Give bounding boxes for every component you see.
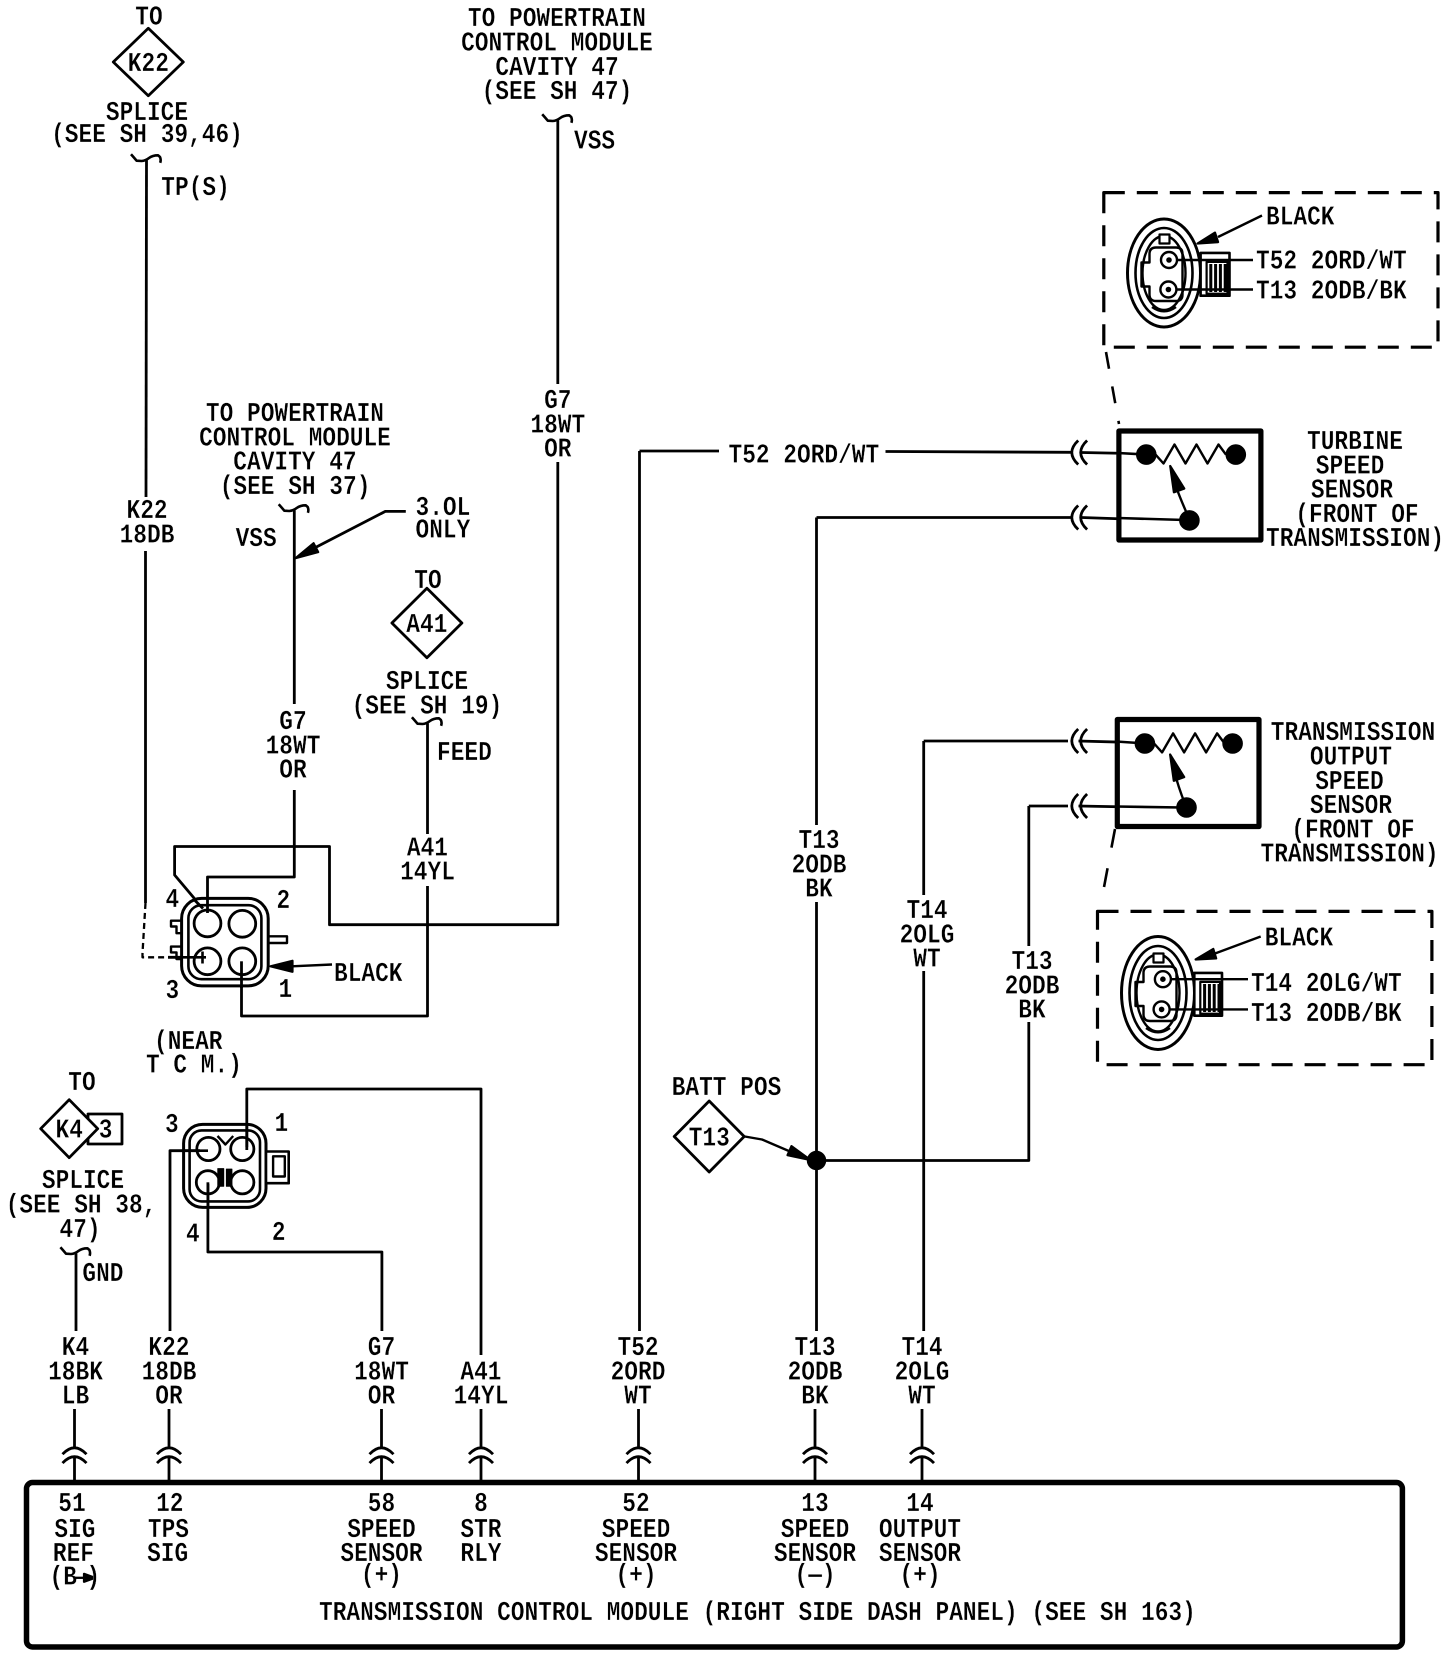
svg-text:T C M.): T C M.) (146, 1051, 242, 1082)
connector C2 pin 2 cavity (231, 1171, 254, 1194)
wire K22 TP(S) vertical (145, 161, 148, 498)
wire K4 stub into TCM (73, 1457, 76, 1482)
break chevrons pin 52 wire (627, 1448, 651, 1463)
break chevrons output - wire (1072, 794, 1087, 818)
svg-text:BLACK: BLACK (1265, 924, 1334, 955)
wire T13r vertical lower + to junction (817, 1022, 1029, 1161)
output connector oval mid (1130, 946, 1187, 1040)
connector C2 housing inner (190, 1130, 260, 1201)
output connector index notch (1154, 954, 1164, 963)
wire G7 mid vertical lower into pin 4 (208, 790, 295, 911)
output connector oval outer (1122, 937, 1195, 1050)
output connector tab inner (1200, 982, 1220, 1014)
wire G7 from pin 4 (C2) (208, 1184, 382, 1331)
arrowhead BLACK (output conn) (1196, 949, 1217, 960)
svg-text:VSS: VSS (236, 524, 277, 555)
wire K22 vertical lower (144, 551, 147, 903)
wire T14 stub into TCM (921, 1457, 924, 1482)
pin 51 (B-> arrowhead (84, 1574, 95, 1582)
wire K22 to TCM (168, 1409, 171, 1448)
svg-text:1: 1 (279, 975, 293, 1006)
wire T52 into turbine box (1082, 453, 1148, 454)
wire K4 to TCM (73, 1409, 76, 1448)
wire A41 stub inside C1 from pin 1 (240, 961, 243, 988)
splice symbol A41 (392, 588, 462, 658)
wire-end bracket K22 splice (131, 154, 161, 163)
leader T52 pin (1177, 259, 1253, 261)
svg-text:(SEE SH 19): (SEE SH 19) (352, 691, 503, 722)
turbine connector tab inner (1207, 262, 1228, 294)
connector C1 pin 3 cavity (194, 948, 221, 975)
output connector pin T14 ring (1155, 971, 1171, 987)
connector C2 pin 3 cavity (197, 1137, 220, 1160)
svg-text:RLY: RLY (460, 1539, 502, 1570)
wire T13r horizontal (output -) (1029, 805, 1068, 808)
pin 3 center tick (201, 952, 204, 964)
wire T14 into output box (1079, 741, 1142, 743)
output sensor wiper line (1175, 772, 1186, 804)
wire T14 to TCM (921, 1409, 924, 1448)
wire T14 inside output box (1116, 742, 1146, 744)
leader BATT POS to junction (745, 1137, 804, 1158)
wire A41 to TCM (480, 1409, 483, 1448)
wire T13 vertical upper (815, 518, 818, 826)
output speed sensor box (1117, 720, 1259, 827)
svg-text:2: 2 (277, 886, 291, 917)
output connector oval inner (1137, 955, 1180, 1032)
svg-text:A41: A41 (406, 610, 447, 641)
wire T13 to TCM (814, 1409, 817, 1448)
break chevrons output + wire (1072, 729, 1087, 753)
pin 3 center tick overlay (201, 952, 204, 964)
turbine connector oval inner (1143, 236, 1186, 310)
break chevrons pin 51 wire (63, 1448, 87, 1463)
leader BLACK (turbine conn) (1218, 216, 1262, 238)
svg-text:(+): (+) (900, 1561, 941, 1592)
wire A41 stub inside C2 from pin 1 (245, 1126, 248, 1150)
wire G7 to TCM (380, 1409, 383, 1448)
wire A41 feed lower + to pin 1 of upper connector (242, 886, 428, 1016)
sheet ref box 3 (88, 1114, 122, 1144)
wire T13 inside output box (1116, 807, 1182, 808)
svg-text:): ) (87, 1563, 101, 1594)
wire T14 vertical lower (922, 971, 925, 1331)
svg-text:(—): (—) (795, 1561, 836, 1592)
svg-text:OR: OR (368, 1382, 396, 1413)
connector C1 pin 2 cavity (229, 910, 256, 937)
leader T13 pin (1176, 288, 1253, 290)
wire K22 stub inside C1 to pin 3 (183, 956, 206, 959)
wire K22 stub inside C2 to pin 3 (185, 1149, 208, 1152)
connector C1 left lower tab (171, 947, 182, 959)
break chevrons turbine - wire (1072, 506, 1087, 530)
wire T14 horizontal (output +) (924, 740, 1068, 743)
leader T14 pin (1171, 978, 1248, 980)
svg-text:TO: TO (68, 1068, 95, 1099)
output connector tab hatch (1205, 984, 1219, 1012)
svg-text:TP(S): TP(S) (161, 173, 230, 204)
svg-text:TRANSMISSION): TRANSMISSION) (1266, 524, 1444, 555)
pin 51 (B-> dash (74, 1577, 88, 1579)
break chevrons pin 14 wire (910, 1448, 934, 1463)
output sensor terminal bottom (1177, 798, 1197, 818)
leader 3.0L ONLY (299, 511, 406, 556)
svg-text:(SEE SH 47): (SEE SH 47) (482, 77, 633, 108)
wire A41 from pin 1 (C2) (247, 1089, 481, 1355)
wire T52 inside turbine box (1118, 453, 1147, 455)
source symbol T13 BATT POS (674, 1101, 744, 1172)
junction dot T13/BATT POS (807, 1151, 825, 1169)
svg-text:SIG: SIG (147, 1539, 188, 1570)
svg-text:1: 1 (275, 1109, 289, 1140)
output connector dashed box (1098, 911, 1432, 1064)
turbine connector pin T52 ring (1161, 252, 1177, 268)
svg-text:3: 3 (166, 976, 180, 1007)
connector C2 key notch (218, 1136, 234, 1145)
wire G7 mid vertical upper (293, 511, 296, 705)
svg-text:ONLY: ONLY (416, 515, 471, 546)
wire T52 horizontal left (640, 450, 720, 453)
connector C2 pin 4 cavity (196, 1171, 219, 1194)
svg-text:(SEE SH 39,46): (SEE SH 39,46) (51, 120, 243, 151)
output connector pin T14 dot (1161, 977, 1166, 982)
wire-end bracket K4 splice (60, 1247, 90, 1256)
svg-text:VSS: VSS (574, 127, 615, 158)
svg-text:OR: OR (544, 435, 572, 466)
svg-text:3: 3 (165, 1110, 179, 1141)
wire A41 stub into TCM (480, 1457, 483, 1482)
connector C1 left upper tab (171, 921, 182, 934)
turbine sensor terminal left (1137, 445, 1157, 465)
connector C1 housing outer (182, 898, 269, 986)
turbine connector slot (1142, 248, 1183, 302)
wire G7 stub into TCM (380, 1457, 383, 1482)
TCM module box (27, 1483, 1403, 1648)
connector C2 pin 1 cavity (231, 1137, 254, 1160)
output connector bottom key arc (1146, 1028, 1170, 1032)
svg-text:(+): (+) (616, 1561, 657, 1592)
turbine connector bottom key arc (1152, 307, 1176, 311)
wire tee diagonal inside C1 (194, 900, 203, 909)
wire T52 vertical (638, 451, 641, 1331)
svg-text:4: 4 (166, 885, 180, 916)
break chevrons pin 12 wire (157, 1448, 181, 1463)
output sensor terminal right (1223, 734, 1243, 754)
output connector pin T13 dot (1159, 1007, 1164, 1012)
svg-text:OR: OR (279, 756, 307, 787)
connector C1 right tab (268, 936, 287, 943)
svg-text:WT: WT (913, 945, 940, 976)
output connector tab outer (1194, 973, 1222, 1016)
wire T13 stub into TCM (814, 1457, 817, 1482)
svg-text:OR: OR (155, 1382, 183, 1413)
connector C2 key bar left (218, 1169, 224, 1187)
svg-text:T13 2ODB/BK: T13 2ODB/BK (1251, 999, 1402, 1030)
wire G7 stub inside C2 from pin 4 (206, 1182, 209, 1206)
turbine connector tab hatch (1211, 264, 1225, 292)
splice symbol K22 (113, 28, 183, 95)
wire G7 right vertical upper (556, 121, 559, 385)
svg-text:TRANSMISSION CONTROL MODULE (R: TRANSMISSION CONTROL MODULE (RIGHT SIDE … (319, 1598, 1196, 1629)
leader to output connector (1101, 829, 1115, 903)
connector C2 right tab inner (273, 1156, 285, 1176)
output sensor coil (1154, 733, 1225, 752)
wire T13r vertical upper (1027, 806, 1030, 946)
leader T13 pin (output) (1170, 1008, 1248, 1010)
svg-text:BLACK: BLACK (1266, 202, 1335, 233)
wire K4 vertical (75, 1254, 78, 1332)
wire T14 vertical upper (922, 741, 925, 895)
output connector pin T13 ring (1154, 1001, 1170, 1017)
output sensor terminal left (1135, 734, 1155, 754)
wire T13 vertical lower (815, 902, 818, 1331)
svg-text:K4: K4 (56, 1116, 83, 1147)
svg-text:2: 2 (272, 1218, 286, 1249)
svg-text:GND: GND (82, 1259, 123, 1290)
output sensor wiper arrowhead (1170, 755, 1184, 781)
svg-text:T14 2OLG/WT: T14 2OLG/WT (1251, 969, 1402, 1000)
arrowhead BLACK (turbine conn) (1198, 233, 1219, 244)
svg-text:BK: BK (801, 1382, 829, 1413)
turbine connector pin T52 dot (1167, 258, 1172, 263)
wire K22 dash-dot section (143, 903, 169, 957)
turbine connector oval outer (1128, 219, 1201, 327)
turbine sensor coil (1156, 445, 1227, 464)
wire T13 into turbine box (1082, 518, 1186, 522)
turbine connector pin T13 dot (1166, 287, 1171, 292)
svg-text:WT: WT (624, 1382, 651, 1413)
svg-text:(+): (+) (361, 1561, 402, 1592)
svg-text:LB: LB (62, 1382, 89, 1413)
arrowhead 3.0L leader (296, 543, 319, 558)
splice symbol K4 (41, 1100, 98, 1158)
wire-end bracket A41 splice (412, 717, 442, 726)
turbine connector dashed box (1104, 193, 1438, 348)
wire A41 feed vertical upper (426, 724, 429, 835)
svg-text:18DB: 18DB (120, 520, 175, 551)
svg-text:BK: BK (805, 875, 833, 906)
svg-text:4: 4 (186, 1220, 200, 1251)
svg-text:BLACK: BLACK (334, 959, 403, 990)
wire T13 inside turbine box (1118, 518, 1185, 520)
break chevrons turbine + wire (1072, 441, 1087, 465)
connector C2 housing outer (184, 1124, 266, 1207)
wire-end bracket SH37 (279, 504, 309, 513)
connector C2 right tab outer (266, 1152, 289, 1184)
wire K22 stub into TCM (168, 1457, 171, 1482)
svg-text:14YL: 14YL (454, 1382, 509, 1413)
turbine sensor wiper line (1176, 486, 1188, 516)
break chevrons pin 8 wire (469, 1448, 493, 1463)
svg-text:FEED: FEED (437, 738, 492, 769)
connector C1 housing inner (188, 905, 261, 979)
wire T13r into output box (1079, 806, 1183, 808)
svg-text:(SEE SH 37): (SEE SH 37) (220, 472, 371, 503)
turbine speed sensor box (1119, 431, 1261, 540)
wire G7 right vertical lower + tee to pin 4 (175, 462, 558, 925)
svg-text:WT: WT (908, 1382, 935, 1413)
svg-text:14YL: 14YL (400, 858, 455, 889)
svg-text:3: 3 (99, 1116, 113, 1147)
connector C1 pin 4 cavity (194, 910, 221, 937)
break chevrons pin 13 wire (803, 1448, 827, 1463)
turbine sensor terminal right (1226, 445, 1246, 465)
svg-text:TRANSMISSION): TRANSMISSION) (1261, 840, 1439, 871)
wire K22 from pin 3 (C2) (170, 1151, 200, 1331)
leader to turbine connector (1106, 352, 1119, 424)
svg-text:T52 2ORD/WT: T52 2ORD/WT (1256, 246, 1407, 277)
turbine sensor wiper arrowhead (1170, 466, 1184, 492)
wire T52 to TCM (637, 1409, 640, 1448)
svg-text:47): 47) (60, 1215, 101, 1246)
svg-text:T13: T13 (689, 1123, 730, 1154)
svg-text:BATT POS: BATT POS (672, 1073, 782, 1104)
connector C1 pin 1 cavity (229, 948, 256, 975)
break chevrons pin 58 wire (370, 1448, 394, 1463)
output connector slot (1136, 967, 1177, 1022)
turbine connector index notch (1160, 235, 1170, 244)
svg-text:BK: BK (1018, 996, 1046, 1027)
svg-text:T52 2ORD/WT: T52 2ORD/WT (729, 440, 880, 471)
wire G7 stub inside C1 to pin 4 (206, 900, 209, 914)
leader BLACK (C1) (292, 965, 332, 967)
svg-text:T13 2ODB/BK: T13 2ODB/BK (1256, 277, 1407, 308)
svg-text:(B: (B (50, 1563, 77, 1594)
turbine connector oval mid (1136, 228, 1193, 318)
turbine connector tab outer (1201, 253, 1230, 296)
leader BLACK (output conn) (1215, 937, 1261, 954)
turbine connector pin T13 ring (1160, 282, 1176, 298)
wire T52 horizontal right (886, 450, 1072, 454)
wire K22 into pin 3 (168, 956, 206, 959)
arrowhead BATT POS leader (788, 1146, 811, 1160)
wire T13 horizontal (turbine -) (817, 516, 1072, 519)
connector C2 key bar right (226, 1169, 232, 1186)
arrowhead BLACK (C1) (271, 961, 293, 972)
wire-end bracket SH47 (542, 114, 572, 123)
svg-text:K22: K22 (128, 49, 169, 80)
wire T52 stub into TCM (637, 1457, 640, 1482)
turbine sensor terminal bottom (1180, 511, 1200, 531)
